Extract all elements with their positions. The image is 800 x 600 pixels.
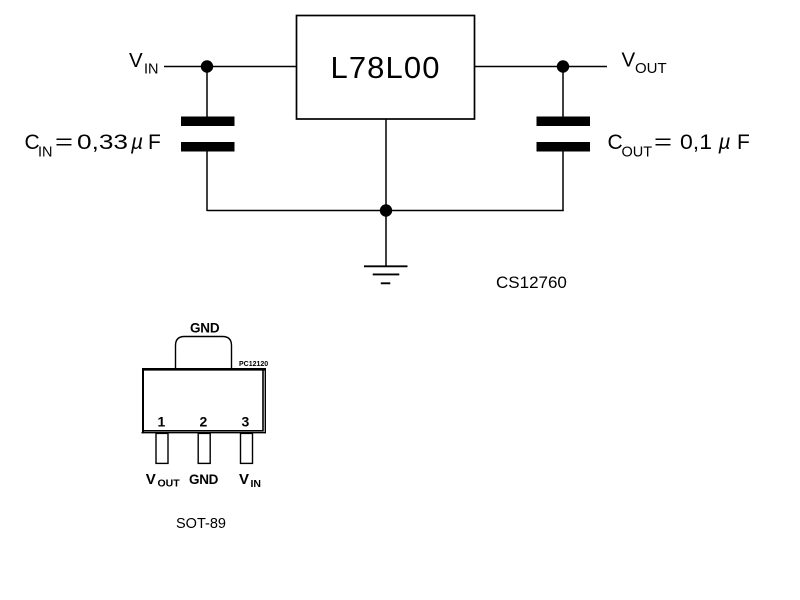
svg-text:IN: IN (144, 62, 159, 78)
svg-text:V: V (129, 49, 143, 72)
ground (364, 266, 408, 283)
svg-text:µ: µ (718, 131, 731, 154)
svg-text:0,33: 0,33 (77, 131, 128, 154)
regulator U1 L78L00 box (297, 16, 475, 120)
svg-text:CS12760: CS12760 (496, 273, 567, 292)
svg-text:IN: IN (251, 478, 262, 490)
svg-text:L78L00: L78L00 (331, 50, 441, 85)
svg-text:SOT-89: SOT-89 (176, 516, 226, 532)
label VOUT (622, 49, 667, 78)
label pin1 VOUT (146, 471, 181, 490)
svg-text:µ: µ (130, 131, 143, 154)
SOT-89 gnd tab (176, 337, 232, 369)
node input junction (201, 60, 213, 72)
wire CIN top (206, 67, 208, 117)
svg-text:=: = (55, 131, 73, 154)
svg-text:V: V (239, 471, 249, 488)
svg-text:1: 1 (158, 414, 166, 430)
pin 1 lead (156, 433, 168, 463)
wire regulator ground (385, 119, 387, 211)
wire input (164, 66, 297, 68)
svg-text:OUT: OUT (635, 60, 667, 77)
label COUT value (608, 131, 750, 161)
svg-text:PC12120: PC12120 (239, 361, 268, 368)
svg-text:GND: GND (190, 320, 220, 335)
wire ground bus (207, 210, 564, 212)
node ground junction (380, 204, 392, 216)
node output junction (557, 60, 569, 72)
svg-text:2: 2 (200, 414, 208, 430)
svg-text:0,1: 0,1 (680, 131, 712, 154)
capacitor CIN (181, 117, 235, 152)
label VIN (129, 49, 159, 78)
wire COUT top (562, 67, 564, 117)
svg-text:F: F (148, 131, 161, 154)
wire to ground symbol (385, 211, 387, 267)
svg-text:OUT: OUT (158, 478, 181, 490)
svg-text:GND: GND (189, 472, 219, 487)
svg-text:V: V (622, 49, 636, 72)
SOT-89 package body (142, 368, 267, 433)
pin 2 lead (198, 433, 210, 463)
svg-text:IN: IN (38, 145, 53, 161)
svg-text:3: 3 (242, 414, 250, 430)
svg-text:F: F (737, 131, 750, 154)
label pin3 VIN (239, 471, 261, 490)
svg-text:OUT: OUT (622, 145, 653, 161)
svg-text:=: = (654, 131, 672, 154)
svg-text:V: V (146, 471, 156, 488)
svg-text:C: C (608, 131, 623, 154)
capacitor COUT (537, 117, 591, 152)
wire CIN bottom (206, 152, 208, 212)
wire output (475, 66, 608, 68)
wire COUT bottom (562, 152, 564, 212)
label CIN value (25, 131, 161, 161)
pin 3 lead (241, 433, 253, 463)
